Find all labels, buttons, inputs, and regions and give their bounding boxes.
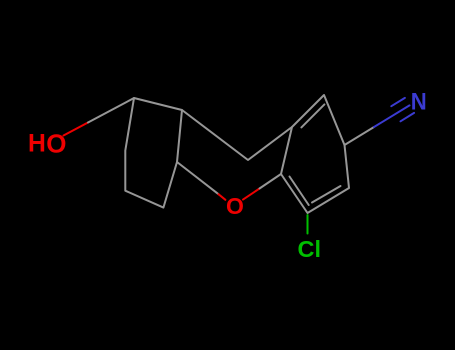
svg-text:H: H xyxy=(28,131,46,158)
svg-text:O: O xyxy=(226,193,244,219)
svg-text:O: O xyxy=(46,128,66,158)
svg-text:N: N xyxy=(411,88,427,115)
svg-text:Cl: Cl xyxy=(298,236,322,262)
